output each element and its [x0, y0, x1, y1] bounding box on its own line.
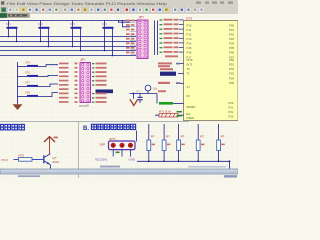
- svg-text:P30: P30: [229, 58, 234, 62]
- svg-text:R?: R?: [200, 135, 204, 139]
- svg-text:P32: P32: [229, 67, 234, 71]
- svg-text:P03: P03: [229, 37, 234, 41]
- svg-text:10u: 10u: [153, 87, 158, 91]
- svg-text:S?7: S?7: [25, 81, 30, 85]
- svg-text:U?1: U?1: [186, 17, 192, 21]
- svg-text:P10: P10: [187, 23, 192, 27]
- svg-text:P01: P01: [229, 28, 234, 32]
- svg-text:P11: P11: [187, 28, 192, 32]
- svg-text:X1: X1: [187, 85, 191, 89]
- svg-text:GND: GND: [129, 157, 137, 161]
- svg-text:P14: P14: [187, 42, 192, 46]
- svg-text:R?2: R?2: [19, 153, 25, 157]
- svg-text:P31: P31: [229, 63, 234, 67]
- svg-text:File Edit View Place Design To: File Edit View Place Design Tools Simula…: [7, 1, 168, 6]
- svg-text:INT0: INT0: [187, 58, 193, 62]
- svg-text:P06: P06: [229, 51, 234, 55]
- svg-text:X2: X2: [187, 94, 191, 98]
- svg-text:P23: P23: [229, 115, 234, 119]
- svg-text:B.: B.: [83, 126, 89, 132]
- svg-text:C?: C?: [136, 89, 140, 93]
- svg-text:R?: R?: [181, 135, 185, 139]
- svg-text:P20: P20: [229, 101, 234, 105]
- svg-text:P00: P00: [229, 23, 234, 27]
- svg-text:P02: P02: [229, 32, 234, 36]
- svg-text:JP?: JP?: [80, 58, 86, 62]
- svg-text:P35: P35: [229, 81, 234, 85]
- svg-text:P34: P34: [229, 76, 234, 80]
- svg-text:DB?: DB?: [100, 143, 106, 147]
- svg-text:RESET: RESET: [187, 105, 196, 109]
- svg-text:9013: 9013: [53, 160, 60, 164]
- svg-text:R?: R?: [166, 135, 170, 139]
- svg-text:P04: P04: [229, 42, 234, 46]
- svg-text:P15: P15: [187, 46, 192, 50]
- svg-text:INT1: INT1: [187, 63, 193, 67]
- svg-text:VCC(5V): VCC(5V): [95, 157, 107, 161]
- svg-text:R?: R?: [151, 135, 155, 139]
- svg-text:R?: R?: [221, 135, 225, 139]
- svg-text:P13: P13: [187, 37, 192, 41]
- svg-text:S?5: S?5: [25, 61, 30, 65]
- svg-text:P22: P22: [229, 110, 234, 114]
- svg-text:P16: P16: [187, 51, 192, 55]
- svg-text:PSEN: PSEN: [187, 116, 195, 120]
- svg-text:T1: T1: [187, 72, 191, 76]
- svg-text:P12: P12: [187, 32, 192, 36]
- svg-text:P05: P05: [229, 46, 234, 50]
- svg-text:P33: P33: [229, 72, 234, 76]
- svg-text:T0: T0: [187, 67, 191, 71]
- svg-text:P3.0: P3.0: [2, 158, 9, 162]
- svg-text:EA: EA: [187, 112, 191, 116]
- svg-text:JP?: JP?: [138, 15, 144, 19]
- svg-text:S?6: S?6: [25, 71, 30, 75]
- svg-text:P21: P21: [229, 106, 234, 110]
- svg-text:S?8: S?8: [25, 91, 30, 95]
- svg-text:R?1 8.2K: R?1 8.2K: [159, 110, 171, 114]
- svg-text:conp10: conp10: [79, 104, 89, 108]
